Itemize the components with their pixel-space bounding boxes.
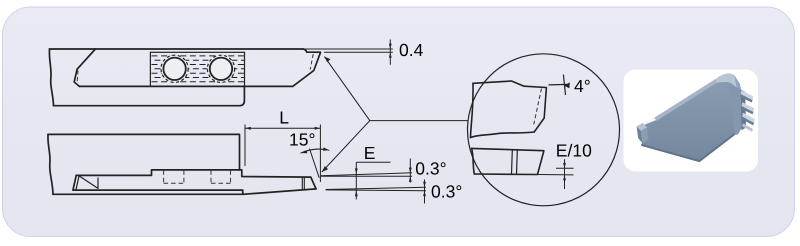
svg-text:E/10: E/10	[556, 141, 592, 161]
svg-text:E: E	[364, 143, 376, 163]
svg-text:15°: 15°	[289, 129, 315, 149]
svg-text:4°: 4°	[574, 76, 591, 96]
svg-text:L: L	[279, 108, 289, 128]
svg-text:0.4: 0.4	[399, 40, 424, 60]
svg-text:0.3°: 0.3°	[415, 158, 446, 178]
svg-text:0.3°: 0.3°	[431, 182, 462, 202]
